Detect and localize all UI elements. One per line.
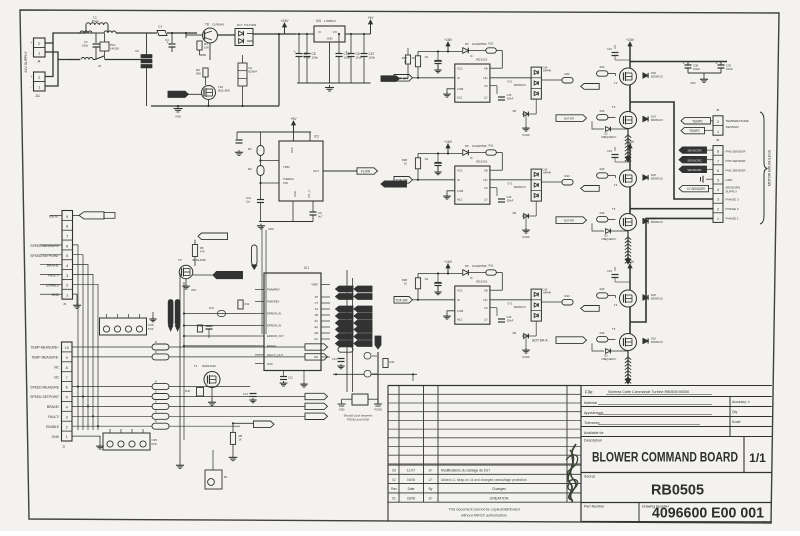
svg-text:CREATION: CREATION: [490, 496, 509, 500]
svg-text:LO: LO: [484, 197, 488, 201]
svg-text:J2: J2: [62, 445, 66, 449]
svg-text:1K: 1K: [404, 282, 407, 286]
svg-text:C9: C9: [318, 211, 322, 215]
svg-text:9: 9: [66, 356, 68, 360]
svg-text:SUPPLY: SUPPLY: [726, 189, 738, 193]
svg-text:COM: COM: [457, 87, 464, 91]
svg-text:D18: D18: [651, 71, 656, 75]
svg-text:VO: VO: [333, 30, 338, 34]
svg-text:NC1: NC1: [457, 197, 463, 201]
svg-text:04/06: 04/06: [407, 478, 415, 482]
svg-text:IN: IN: [457, 76, 460, 80]
svg-text:T4: T4: [614, 303, 618, 307]
svg-text:SENSOR3: SENSOR3: [687, 149, 702, 153]
svg-text:without AIROX authorisation: without AIROX authorisation: [461, 514, 507, 518]
svg-text:C14: C14: [243, 392, 248, 396]
svg-text:BZX84C15: BZX84C15: [651, 341, 663, 344]
svg-text:9: 9: [66, 215, 68, 219]
svg-text:Available for: Available for: [584, 431, 605, 435]
svg-text:Modifications du cablage de D1: Modifications du cablage de D17: [441, 469, 490, 473]
svg-text:MLB_8M3: MLB_8M3: [218, 89, 230, 93]
svg-text:R21: R21: [489, 42, 494, 46]
svg-text:By: By: [429, 487, 433, 491]
svg-text:100n: 100n: [369, 55, 376, 59]
svg-text:7: 7: [717, 159, 719, 163]
svg-text:C4: C4: [165, 38, 169, 42]
svg-text:R39: R39: [372, 354, 377, 358]
svg-text:5: 5: [66, 396, 68, 400]
svg-text:C24: C24: [607, 269, 612, 273]
svg-text:C24: C24: [607, 47, 612, 51]
svg-text:VDG: VDG: [268, 227, 274, 231]
svg-text:OSC: OSC: [267, 362, 273, 366]
svg-text:+V SENSOR: +V SENSOR: [686, 187, 705, 191]
svg-text:SENSOR: SENSOR: [726, 125, 740, 129]
svg-text:IRLML6402: IRLML6402: [192, 258, 206, 262]
svg-text:LO: LO: [484, 95, 488, 99]
svg-text:LF: LF: [429, 469, 433, 473]
svg-text:100n: 100n: [312, 55, 319, 59]
svg-text:PHASE 2: PHASE 2: [726, 207, 739, 211]
svg-text:BZX84C15: BZX84C15: [514, 186, 526, 189]
svg-text:10uF: 10uF: [356, 55, 363, 59]
svg-text:1K: 1K: [404, 162, 407, 166]
svg-text:7: 7: [66, 234, 68, 238]
svg-text:D18: D18: [651, 293, 656, 297]
svg-text:+5V: +5V: [367, 16, 374, 20]
svg-text:TEMP1: TEMP1: [692, 119, 703, 123]
svg-text:T9: T9: [178, 258, 182, 262]
svg-text:FREQUENCY: FREQUENCY: [601, 136, 616, 139]
svg-text:11n: 11n: [246, 200, 251, 204]
svg-text:VB: VB: [484, 289, 488, 293]
svg-text:TEMP2: TEMP2: [689, 129, 700, 133]
svg-text:4096600 E00 001: 4096600 E00 001: [652, 506, 764, 522]
svg-text:R08: R08: [402, 56, 408, 60]
svg-text:T4: T4: [614, 183, 618, 187]
svg-text:PGND: PGND: [374, 408, 382, 412]
svg-text:D8: D8: [513, 211, 517, 215]
svg-text:R21: R21: [489, 144, 494, 148]
svg-text:PH1 SENSOR: PH1 SENSOR: [726, 169, 747, 173]
svg-text:T5: T5: [612, 207, 616, 211]
svg-text:M10: M10: [564, 294, 570, 298]
svg-text:7: 7: [66, 376, 68, 380]
svg-text:BLOWER COMMAND BOARD: BLOWER COMMAND BOARD: [592, 450, 738, 465]
svg-text:GND: GND: [339, 408, 345, 412]
svg-text:5: 5: [717, 179, 719, 183]
svg-text:IC6: IC6: [316, 19, 321, 23]
svg-text:B1: B1: [224, 475, 228, 479]
svg-text:BRAKE/: BRAKE/: [47, 264, 59, 268]
svg-text:VDG: VDG: [690, 81, 696, 85]
svg-text:R44: R44: [390, 360, 395, 364]
svg-text:C35: C35: [152, 438, 158, 442]
svg-text:+: +: [294, 50, 296, 54]
svg-text:File:: File:: [585, 390, 594, 395]
svg-text:C45: C45: [507, 93, 512, 97]
svg-text:M10: M10: [564, 174, 570, 178]
svg-text:GND: GND: [293, 191, 297, 197]
svg-text:VDG: VDG: [175, 115, 181, 119]
svg-text:BZX84C15: BZX84C15: [651, 178, 663, 181]
svg-text:M10: M10: [564, 72, 570, 76]
svg-text:BZX84C15: BZX84C15: [514, 306, 526, 309]
svg-text:EB: EB: [315, 332, 319, 335]
svg-text:C39: C39: [726, 64, 731, 68]
svg-text:Changes: Changes: [492, 487, 506, 491]
svg-text:FAULT/: FAULT/: [48, 273, 59, 277]
svg-text:FLOW: FLOW: [361, 170, 370, 174]
svg-text:D8: D8: [513, 109, 517, 113]
svg-text:1K: 1K: [404, 60, 407, 64]
svg-text:NC1: NC1: [457, 317, 463, 321]
svg-text:+: +: [716, 62, 718, 66]
svg-text:100n: 100n: [82, 44, 89, 48]
svg-text:IN: IN: [457, 298, 460, 302]
svg-text:R5: R5: [200, 246, 204, 250]
svg-text:IC: IC: [470, 276, 473, 280]
svg-text:GND: GND: [52, 293, 60, 297]
svg-text:Part Number: Part Number: [584, 505, 605, 509]
svg-text:+16V: +16V: [444, 260, 453, 264]
svg-text:02/06: 02/06: [407, 496, 415, 500]
svg-text:D: D: [155, 400, 157, 403]
svg-text:PGND: PGND: [522, 134, 529, 137]
svg-text:C45: C45: [507, 195, 512, 199]
svg-text:DY1: DY1: [508, 183, 513, 186]
svg-text:1N4448HWS: 1N4448HWS: [472, 265, 487, 268]
svg-text:DY1: DY1: [508, 81, 513, 84]
svg-text:100n: 100n: [344, 55, 351, 59]
svg-text:FREQUENCY: FREQUENCY: [601, 358, 616, 361]
svg-text:3: 3: [66, 274, 68, 278]
svg-text:VB: VB: [484, 169, 488, 173]
svg-text:SC: SC: [315, 320, 319, 323]
svg-text:5: 5: [66, 254, 68, 258]
svg-text:J6: J6: [98, 64, 101, 68]
svg-text:CLP60A9: CLP60A9: [212, 23, 224, 27]
svg-text:+: +: [31, 41, 33, 45]
svg-text:EA: EA: [315, 326, 319, 329]
svg-text:PWM/REV: PWM/REV: [267, 288, 280, 292]
svg-text:BZX84C15: BZX84C15: [651, 76, 663, 79]
svg-text:C6: C6: [135, 49, 139, 53]
svg-text:4: 4: [717, 188, 719, 192]
svg-text:D8: D8: [513, 331, 517, 335]
svg-text:1N4448HWS: 1N4448HWS: [472, 145, 487, 148]
svg-text:R21: R21: [489, 264, 494, 268]
svg-text:RB0505: RB0505: [651, 483, 704, 499]
svg-text:2: 2: [66, 425, 68, 429]
svg-text:R1: R1: [248, 147, 252, 151]
svg-text:IRLML6402: IRLML6402: [202, 364, 216, 368]
svg-text:VB: VB: [484, 67, 488, 71]
svg-text:This document cannot be copied: This document cannot be copied/distribut…: [448, 508, 519, 512]
svg-text:D18: D18: [651, 173, 656, 177]
svg-text:10: 10: [65, 346, 69, 350]
svg-text:ENABLE: ENABLE: [46, 425, 60, 429]
svg-text:Material: Material: [584, 401, 597, 405]
svg-text:D19: D19: [651, 115, 656, 119]
svg-text:TOP-DR: TOP-DR: [395, 77, 408, 81]
svg-text:100nF: 100nF: [507, 320, 514, 323]
svg-text:SENSOR1: SENSOR1: [687, 168, 702, 172]
svg-text:R30: R30: [600, 109, 605, 113]
svg-text:EC: EC: [315, 338, 319, 341]
svg-text:T10: T10: [218, 85, 224, 89]
svg-text:1: 1: [66, 294, 68, 298]
svg-text:D: D: [155, 420, 157, 423]
svg-text:ERROR_IN: ERROR_IN: [267, 324, 281, 328]
svg-text:6: 6: [66, 244, 68, 248]
svg-text:BOT-DR: BOT-DR: [564, 117, 574, 121]
svg-text:D17: D17: [237, 23, 243, 27]
svg-text:100uF: 100uF: [693, 68, 701, 71]
svg-text:Added L1, strap on J4 and chan: Added L1, strap on J4 and changed camouf…: [441, 478, 527, 482]
svg-text:-: -: [31, 85, 32, 89]
svg-text:SPEED-MEASURE: SPEED-MEASURE: [30, 244, 59, 248]
svg-text:30uH: 30uH: [92, 19, 99, 23]
svg-text:BZX84C15: BZX84C15: [514, 84, 526, 87]
svg-text:TR2: TR2: [283, 181, 288, 185]
svg-text:LF: LF: [429, 496, 433, 500]
svg-text:BOT-DR: BOT-DR: [564, 219, 574, 223]
svg-text:1N4448: 1N4448: [543, 70, 552, 73]
svg-text:HO: HO: [483, 178, 487, 182]
svg-text:+16V: +16V: [444, 140, 453, 144]
svg-text:2: 2: [66, 284, 68, 288]
svg-text:R8: R8: [239, 434, 243, 438]
svg-text:IDENT: IDENT: [49, 214, 59, 218]
svg-text:BOT-DR-A: BOT-DR-A: [532, 339, 548, 343]
svg-text:100uF: 100uF: [726, 68, 734, 71]
svg-text:D4: D4: [249, 66, 253, 70]
svg-text:3: 3: [66, 415, 68, 419]
svg-text:R30: R30: [600, 331, 605, 335]
svg-text:6: 6: [66, 386, 68, 390]
svg-text:+5V: +5V: [290, 117, 297, 121]
svg-text:PGND: PGND: [522, 236, 529, 239]
svg-text:FAULT/: FAULT/: [48, 415, 59, 419]
svg-text:IR2101S: IR2101S: [476, 280, 487, 284]
svg-text:C12: C12: [288, 376, 293, 380]
svg-text:IR2101S: IR2101S: [476, 58, 487, 62]
svg-text:CTL_V: CTL_V: [307, 190, 311, 198]
svg-text:D: D: [155, 341, 157, 344]
svg-text:PGND: PGND: [522, 356, 529, 359]
svg-text:+: +: [31, 75, 33, 79]
svg-text:+24V: +24V: [626, 140, 635, 144]
svg-text:T5: T5: [612, 105, 616, 109]
svg-text:MOTOR BRUSHLESS: MOTOR BRUSHLESS: [768, 149, 772, 186]
svg-text:C24: C24: [607, 149, 612, 153]
svg-text:C9: C9: [425, 55, 429, 59]
svg-text:ENABLE: ENABLE: [46, 283, 60, 287]
svg-text:J5: J5: [716, 108, 720, 112]
svg-text:R20: R20: [600, 287, 605, 291]
svg-text:SPEED-SETPOINT: SPEED-SETPOINT: [30, 395, 59, 399]
svg-text:D: D: [155, 391, 157, 394]
svg-text:1N4448: 1N4448: [543, 292, 552, 295]
svg-text:+16V: +16V: [444, 38, 453, 42]
svg-text:NC: NC: [54, 375, 59, 379]
svg-text:ERROR_IN: ERROR_IN: [267, 312, 281, 316]
svg-text:BRAKE/: BRAKE/: [47, 405, 59, 409]
svg-text:D: D: [155, 381, 157, 384]
svg-text:+24V: +24V: [280, 19, 289, 23]
svg-text:C45: C45: [507, 315, 512, 319]
svg-text:BZX84C15: BZX84C15: [651, 119, 663, 122]
svg-text:FWD/REV: FWD/REV: [267, 300, 280, 304]
svg-text:3: 3: [717, 198, 719, 202]
svg-text:R30: R30: [600, 211, 605, 215]
svg-text:1: 1: [717, 130, 719, 134]
svg-text:P10: P10: [110, 43, 116, 47]
svg-text:C9: C9: [425, 277, 429, 281]
svg-text:T8: T8: [205, 23, 209, 27]
svg-text:1K: 1K: [239, 438, 242, 442]
svg-text:Schema Carte Commande Turbine: Schema Carte Commande Turbine RB0505 IMD…: [608, 390, 689, 394]
svg-text:02: 02: [392, 478, 396, 482]
svg-text:TEMP-MEASURE+: TEMP-MEASURE+: [31, 346, 60, 350]
svg-text:Rev: Rev: [391, 487, 397, 491]
svg-text:R08: R08: [402, 278, 408, 282]
svg-text:Description: Description: [584, 439, 602, 443]
svg-text:TRIG: TRIG: [283, 165, 290, 169]
svg-text:SB: SB: [315, 314, 319, 317]
svg-text:VS: VS: [484, 306, 488, 310]
svg-text:2: 2: [717, 207, 719, 211]
svg-text:NC1: NC1: [457, 95, 463, 99]
svg-text:IC: IC: [470, 156, 473, 160]
svg-text:ERROR_OUT: ERROR_OUT: [267, 334, 284, 338]
svg-text:J11: J11: [35, 94, 40, 98]
svg-text:IC: IC: [470, 54, 473, 58]
svg-text:SPEED-SETPOINT: SPEED-SETPOINT: [30, 254, 59, 258]
svg-text:VID: VID: [314, 356, 318, 359]
svg-text:6: 6: [717, 169, 719, 173]
svg-text:R40: R40: [185, 389, 190, 393]
svg-text:+: +: [683, 62, 685, 66]
svg-text:8: 8: [66, 225, 68, 229]
svg-text:D: D: [155, 351, 157, 354]
svg-text:VCC: VCC: [457, 289, 463, 293]
svg-text:Date: Date: [408, 487, 415, 491]
svg-text:PHASE 1: PHASE 1: [726, 217, 739, 221]
svg-text:4: 4: [66, 406, 68, 410]
svg-text:J4: J4: [37, 60, 41, 64]
svg-text:24V SUPPLY: 24V SUPPLY: [24, 51, 28, 73]
svg-text:VCC: VCC: [457, 67, 463, 71]
svg-text:R08: R08: [402, 158, 408, 162]
svg-text:T1: T1: [194, 364, 198, 368]
svg-text:+24V: +24V: [626, 260, 635, 264]
svg-text:2: 2: [717, 120, 719, 124]
svg-text:D5: D5: [465, 264, 469, 268]
svg-text:4n7: 4n7: [318, 215, 323, 219]
svg-text:8: 8: [66, 366, 68, 370]
svg-text:NC: NC: [54, 366, 59, 370]
svg-text:R42: R42: [245, 302, 250, 306]
svg-text:THRESH: THRESH: [283, 177, 294, 181]
svg-text:TOP-DR: TOP-DR: [395, 179, 408, 183]
svg-text:RT: RT: [315, 296, 319, 299]
svg-text:CT: CT: [315, 302, 319, 305]
svg-text:L7805CV: L7805CV: [324, 19, 336, 23]
svg-text:COM: COM: [457, 309, 464, 313]
svg-text:OUT: OUT: [313, 169, 319, 173]
svg-text:BZX84C15: BZX84C15: [651, 298, 663, 301]
svg-text:D5: D5: [465, 42, 469, 46]
svg-text:11-07: 11-07: [407, 469, 415, 473]
svg-text:SENSOR2: SENSOR2: [687, 158, 702, 162]
svg-text:01: 01: [392, 496, 396, 500]
svg-text:C9: C9: [425, 157, 429, 161]
svg-text:J3: J3: [63, 302, 67, 306]
svg-text:1: 1: [66, 435, 68, 439]
svg-text:100nF: 100nF: [507, 98, 514, 101]
svg-text:-: -: [31, 51, 32, 55]
svg-text:+: +: [346, 50, 348, 54]
svg-text:Qty: Qty: [732, 410, 738, 414]
svg-text:IR2101S: IR2101S: [476, 160, 487, 164]
svg-text:C3: C3: [158, 25, 162, 29]
svg-text:FREQUENCY: FREQUENCY: [601, 238, 616, 241]
svg-text:T5: T5: [612, 327, 616, 331]
svg-text:TOP-DR: TOP-DR: [395, 299, 408, 303]
svg-text:VI: VI: [318, 30, 321, 34]
svg-text:BZW04: BZW04: [249, 71, 258, 74]
svg-text:R47: R47: [209, 306, 214, 310]
svg-text:C38: C38: [693, 64, 698, 68]
svg-text:PH3 SENSOR: PH3 SENSOR: [726, 149, 747, 153]
svg-text:BRAKE: BRAKE: [267, 344, 276, 348]
svg-text:C21: C21: [332, 357, 337, 361]
svg-text:IN: IN: [457, 178, 460, 182]
svg-text:VCC: VCC: [290, 147, 294, 153]
svg-text:TCLT1009: TCLT1009: [244, 23, 257, 27]
svg-text:VS: VS: [484, 84, 488, 88]
svg-text:1N4448: 1N4448: [543, 172, 552, 175]
svg-text:POF: POF: [148, 327, 154, 331]
svg-text:PH2 SENSOR: PH2 SENSOR: [726, 159, 747, 163]
svg-text:PGND and GND: PGND and GND: [347, 418, 370, 422]
svg-text:47K: 47K: [200, 250, 205, 254]
svg-text:IC2: IC2: [314, 135, 319, 139]
svg-text:TEMPERATURE: TEMPERATURE: [726, 119, 749, 123]
svg-text:SA: SA: [315, 308, 319, 311]
svg-text:GND: GND: [327, 37, 333, 41]
svg-text:1/1: 1/1: [749, 451, 766, 465]
svg-text:PHASE 3: PHASE 3: [726, 197, 739, 201]
svg-text:56K: 56K: [196, 72, 201, 76]
svg-text:SPEED-MEASURE: SPEED-MEASURE: [30, 385, 59, 389]
svg-text:VREF: VREF: [311, 284, 318, 287]
svg-text:Source: Source: [584, 475, 595, 479]
svg-text:C11: C11: [246, 196, 251, 200]
svg-text:VCC: VCC: [457, 169, 463, 173]
svg-text:TEMP-MEASURE-: TEMP-MEASURE-: [31, 356, 59, 360]
svg-text:Tolerance: Tolerance: [584, 421, 600, 425]
svg-text:BZX84C15: BZX84C15: [651, 221, 663, 224]
svg-text:LO: LO: [484, 317, 488, 321]
svg-text:Scale: Scale: [732, 420, 741, 424]
svg-text:Accuracy: ±: Accuracy: ±: [732, 400, 750, 404]
svg-text:HO: HO: [483, 76, 487, 80]
svg-text:FAULT/_OUT: FAULT/_OUT: [267, 353, 283, 357]
svg-text:J6: J6: [716, 138, 720, 142]
